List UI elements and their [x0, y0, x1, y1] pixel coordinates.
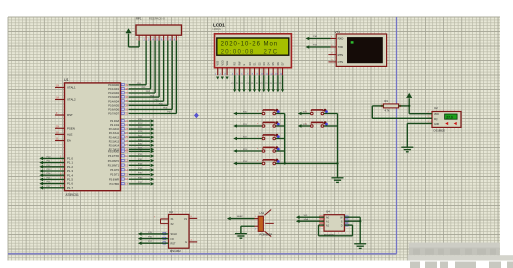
eeprom wires to ground rail	[344, 216, 360, 218]
push button K5	[262, 162, 265, 165]
svg-text:P0.4/AD4: P0.4/AD4	[108, 100, 119, 103]
svg-text:P3.2/INT0: P3.2/INT0	[108, 160, 120, 163]
mcu P2 terminal wires	[129, 120, 150, 122]
svg-text:AT89C51: AT89C51	[66, 193, 79, 197]
wire button K7 to terminal	[302, 125, 311, 127]
svg-text:P3.7/RD: P3.7/RD	[110, 183, 120, 186]
wire button K3 to bus	[276, 138, 285, 140]
svg-text:RXD: RXD	[338, 37, 344, 41]
svg-text:RP1: RP1	[136, 17, 142, 21]
svg-text:DS1302: DS1302	[170, 249, 181, 253]
svg-text:U1: U1	[64, 78, 69, 82]
svg-text:4.7k: 4.7k	[385, 109, 391, 113]
svg-text:P0.2/AD2: P0.2/AD2	[108, 92, 119, 95]
wire button K4 to terminal	[237, 150, 262, 152]
wire P1.6 terminal	[43, 183, 65, 185]
RP1 pins	[138, 35, 140, 40]
wire button K4 to bus	[276, 150, 285, 152]
svg-text:P3.0/RXD: P3.0/RXD	[108, 151, 119, 154]
svg-text:P0.1/AD1: P0.1/AD1	[108, 88, 119, 91]
wire button K3 to terminal	[237, 138, 262, 140]
wire P1.2 terminal	[43, 166, 65, 168]
svg-text:P1: P1	[265, 83, 267, 85]
mcu U1 body	[65, 83, 121, 191]
svg-text:P1: P1	[241, 83, 243, 85]
right button column bus wire	[337, 114, 339, 178]
wire DQ to R1	[372, 105, 383, 107]
svg-text:2020-10-26 Mon: 2020-10-26 Mon	[221, 41, 278, 47]
wire button K7 to bus	[324, 125, 338, 127]
svg-text:U2: U2	[434, 106, 438, 110]
svg-text:P0.0/AD0: P0.0/AD0	[108, 84, 119, 87]
wire button K1 to terminal	[237, 113, 262, 115]
svg-text:P3.1/TXD: P3.1/TXD	[108, 155, 119, 158]
wire sounder to ground	[241, 225, 255, 227]
svg-text:P1: P1	[260, 83, 262, 85]
push button K1	[262, 112, 265, 115]
power VCC arrow at DS18B20	[407, 93, 412, 98]
svg-text:SCLK: SCLK	[171, 233, 178, 236]
mcu pin RST	[55, 114, 65, 116]
wire VDD of DS18B20	[409, 113, 432, 115]
svg-text:P2.4/A12: P2.4/A12	[109, 136, 120, 139]
svg-text:VDD: VDD	[434, 114, 439, 116]
wire P1.7 terminal	[43, 187, 65, 189]
svg-text:GND: GND	[434, 124, 439, 126]
wire button K5 to terminal	[237, 162, 262, 164]
wire RP1 pin 3 to P0.1	[150, 41, 152, 89]
mcu pin XTAL2	[55, 99, 65, 101]
svg-text:P0.6/AD6: P0.6/AD6	[108, 109, 119, 112]
wire sounder terminal	[231, 218, 255, 220]
wire RP1 pin 8 to P0.6	[171, 41, 173, 110]
svg-text:BEEP: BEEP	[237, 216, 243, 218]
svg-text:P0.3/AD3: P0.3/AD3	[108, 96, 119, 99]
wire GND of DS18B20	[407, 122, 432, 124]
ground for sounder	[235, 233, 247, 235]
push button K6	[311, 112, 314, 115]
power VCC arrow at RP1	[126, 28, 131, 33]
wire DQ of DS18B20	[372, 117, 432, 119]
push button K4	[262, 150, 265, 153]
svg-text:P3.4/T0: P3.4/T0	[110, 169, 119, 172]
lcd pin stubs	[217, 68, 219, 76]
svg-text:LCD1: LCD1	[213, 22, 225, 27]
wire RP1 pin 6 to P0.4	[163, 41, 165, 102]
mcu right pin numbers P0	[121, 83, 124, 85]
mcu pin EA	[55, 140, 65, 142]
svg-text:XTAL1: XTAL1	[67, 86, 76, 90]
virtual terminal pin stubs	[331, 38, 337, 40]
svg-text:PCB-BEEP: PCB-BEEP	[260, 233, 273, 236]
wire button K6 to terminal	[302, 113, 311, 115]
svg-text:LM016L: LM016L	[213, 28, 222, 31]
lcd power pin terminals	[216, 77, 219, 80]
crystal X1 at rtc	[161, 218, 169, 220]
temp sensor pin stubs	[428, 113, 433, 115]
eeprom AT24C02 body	[324, 215, 344, 232]
svg-text:R1: R1	[385, 99, 389, 103]
sounder sound rays	[265, 210, 272, 216]
svg-text:VT1: VT1	[335, 30, 341, 34]
svg-text:EA: EA	[67, 139, 71, 143]
lcd body	[215, 34, 292, 68]
watermark texture streaks	[413, 249, 420, 255]
svg-text:P1: P1	[256, 83, 258, 85]
svg-text:P2.6/A14: P2.6/A14	[109, 144, 120, 147]
wire P1.3 terminal	[43, 170, 65, 172]
svg-text:P1: P1	[270, 83, 272, 85]
ground for eeprom	[354, 243, 366, 245]
mcu pin XTAL1	[55, 87, 65, 89]
svg-text:P3.3/INT1: P3.3/INT1	[108, 164, 120, 167]
lcd screen	[217, 38, 289, 55]
mcu right pin numbers P3	[121, 150, 124, 152]
svg-text:P0.5/AD5: P0.5/AD5	[108, 104, 119, 107]
lcd control and data wires	[234, 75, 236, 89]
svg-text:U3: U3	[169, 210, 173, 214]
svg-text:DQ: DQ	[434, 119, 438, 121]
mcu pin ALE	[55, 133, 65, 135]
mcu P3 terminal wires	[129, 150, 150, 152]
wire P1.1 terminal	[43, 162, 65, 164]
svg-text:PSEN: PSEN	[67, 126, 75, 130]
wire TXD terminal	[309, 46, 331, 48]
wire RP1 pin 4 to P0.2	[154, 41, 156, 93]
wire RP1 pin 7 to P0.5	[167, 41, 169, 106]
svg-text:P0.7/AD7: P0.7/AD7	[108, 113, 119, 116]
svg-text:P1: P1	[247, 83, 249, 85]
svg-text:DS18B20: DS18B20	[434, 128, 446, 132]
svg-text:P3.5/T1: P3.5/T1	[110, 174, 119, 177]
svg-text:P1: P1	[275, 83, 277, 85]
svg-text:VEE: VEE	[226, 60, 229, 65]
svg-text:VDD: VDD	[221, 60, 224, 65]
wire VCC to RP1 pin 1	[129, 46, 140, 48]
svg-text:P1: P1	[236, 83, 238, 85]
rtc GND pin stub	[189, 241, 197, 243]
wire RP1 pin 9 to P0.7	[175, 41, 177, 114]
eeprom right pin boxes	[345, 216, 348, 218]
sounder pin stubs	[255, 218, 259, 220]
eeprom left pin boxes	[320, 216, 323, 219]
svg-text:D: D	[341, 224, 343, 227]
wire button K6 to bus	[324, 113, 338, 115]
temp sensor DS18B20 body	[432, 112, 461, 128]
svg-text:P2.2/A10: P2.2/A10	[109, 128, 120, 131]
svg-text:RST: RST	[171, 242, 176, 245]
svg-text:P2.3/A11: P2.3/A11	[109, 132, 120, 135]
wire button K5 to bus	[276, 162, 338, 164]
wire RXD terminal	[309, 38, 331, 40]
virtual terminal body	[336, 34, 386, 66]
svg-text:P1: P1	[231, 83, 233, 85]
temp sensor buttons	[445, 122, 448, 125]
resistor pack RP1 body	[136, 25, 182, 35]
ground for buttons	[332, 177, 344, 179]
svg-text:CTS: CTS	[338, 60, 344, 64]
mcu pin PSEN	[55, 127, 65, 129]
svg-text:XTAL2: XTAL2	[67, 98, 76, 102]
svg-text:P2.5/A13: P2.5/A13	[109, 140, 120, 143]
wire P1.0 terminal	[43, 157, 65, 159]
virtual terminal cursor	[351, 41, 354, 43]
resistor R1 body	[383, 104, 398, 108]
eeprom WP loop wire	[319, 224, 325, 226]
svg-text:P1: P1	[279, 83, 281, 85]
svg-text:ALE: ALE	[67, 133, 73, 137]
wire P1.5 terminal	[43, 178, 65, 180]
sheet border (blue)	[396, 17, 398, 254]
wire button K1 to bus	[276, 113, 285, 115]
virtual terminal screen	[347, 37, 383, 63]
svg-text:LS1: LS1	[260, 211, 265, 215]
svg-text:VSS: VSS	[217, 60, 220, 65]
svg-text:U4: U4	[326, 209, 330, 213]
svg-text:27.0: 27.0	[446, 115, 453, 119]
wire P1.4 terminal	[43, 174, 65, 176]
origin marker diamond	[194, 113, 199, 119]
wire button K2 to bus	[276, 125, 285, 127]
watermark block	[409, 243, 500, 248]
wire R1 to VCC	[399, 105, 410, 107]
ground for DS18B20	[401, 146, 413, 148]
svg-text:P3.6/WR: P3.6/WR	[109, 178, 119, 181]
left button column bus wire	[284, 114, 286, 164]
svg-text:I/O: I/O	[171, 238, 174, 241]
svg-text:G: G	[185, 241, 187, 244]
rtc control terminal wires	[163, 233, 166, 235]
svg-text:20:00:08 27C: 20:00:08 27C	[221, 49, 278, 55]
svg-text:P2.0/A8: P2.0/A8	[110, 120, 120, 123]
wire button K2 to terminal	[237, 125, 262, 127]
push button K2	[262, 125, 265, 128]
wire RP1 pin 2 to P0.0	[145, 41, 147, 85]
svg-text:RST: RST	[67, 113, 73, 117]
svg-text:P1.7: P1.7	[67, 186, 73, 190]
mcu right pin numbers P2	[121, 120, 124, 122]
push button K7	[311, 125, 314, 128]
wire RP1 pin 5 to P0.3	[158, 41, 160, 98]
svg-text:RESPACK-8: RESPACK-8	[149, 17, 165, 21]
svg-text:RS: RS	[234, 62, 237, 66]
svg-text:TXD: TXD	[338, 45, 343, 49]
temp sensor display	[445, 114, 458, 119]
svg-text:SDA: SDA	[304, 218, 309, 221]
sounder body	[258, 216, 263, 231]
rtc DS1302 body	[169, 214, 190, 248]
eeprom SCL SDA terminal wires	[300, 216, 325, 218]
push button K3	[262, 137, 265, 140]
svg-text:P2.1/A9: P2.1/A9	[110, 124, 120, 127]
rtc VCC1 pin stub	[189, 217, 197, 219]
svg-text:P1: P1	[251, 83, 253, 85]
svg-text:RTS: RTS	[338, 53, 344, 57]
